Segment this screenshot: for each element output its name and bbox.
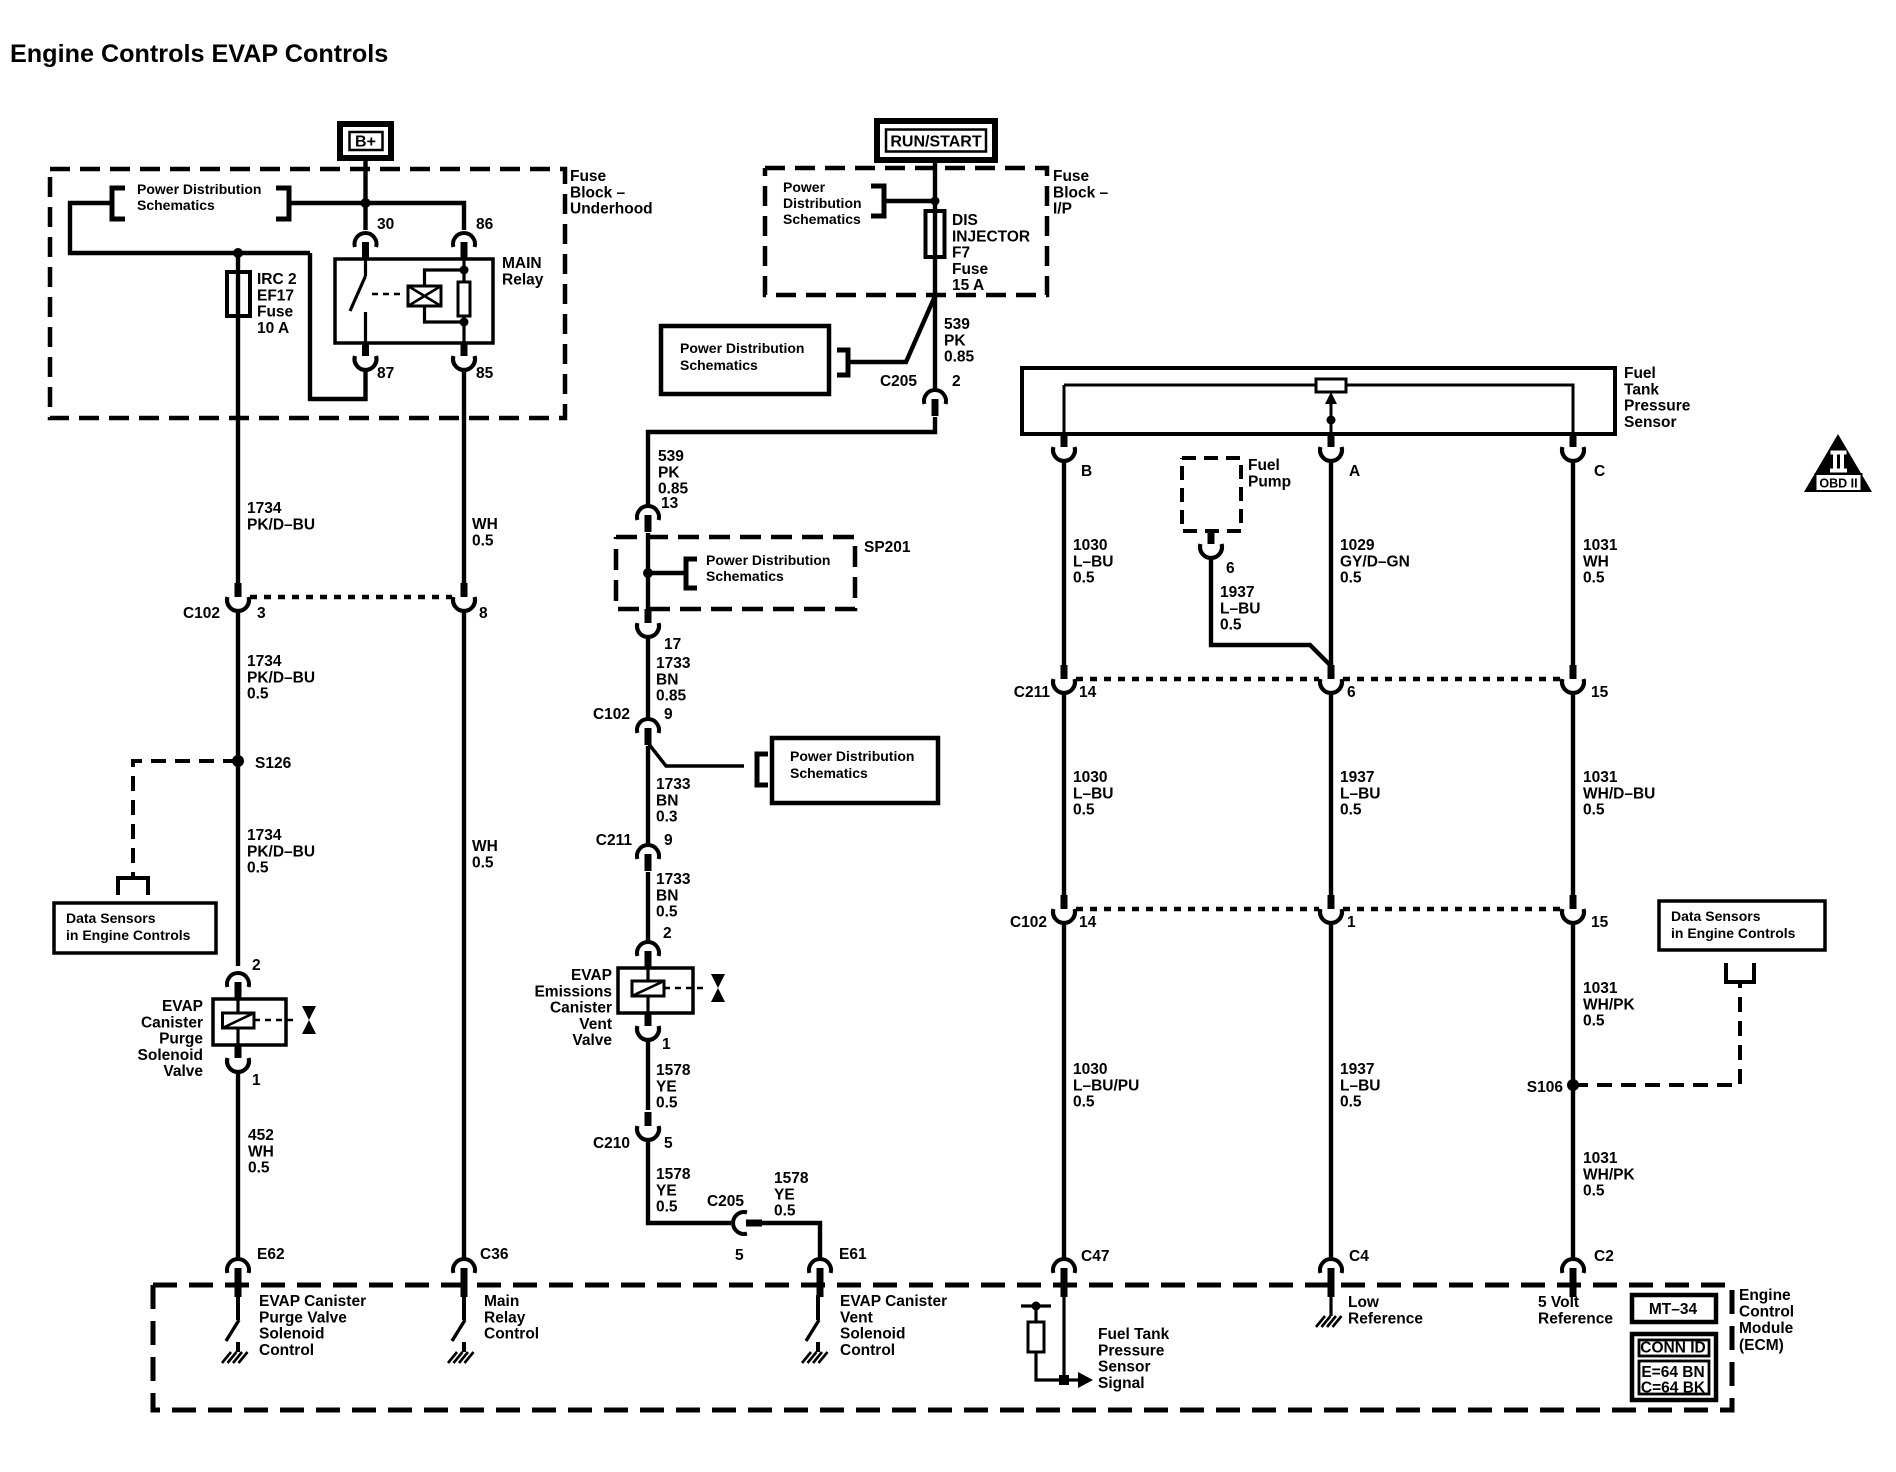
valve EVAP Canister Purge Solenoid Valve box	[213, 999, 286, 1045]
relay coil bottom wire	[425, 306, 465, 322]
svg-text:87: 87	[377, 365, 394, 382]
relay coil top wire to pin 86	[425, 270, 465, 286]
svg-text:Block –: Block –	[570, 184, 626, 201]
svg-text:DIS: DIS	[952, 212, 978, 229]
svg-text:15 A: 15 A	[952, 277, 984, 294]
relay pin 87 connector	[362, 343, 369, 356]
dashed connector row C102 right	[1076, 907, 1319, 912]
svg-text:30: 30	[377, 216, 394, 233]
svg-text:(ECM): (ECM)	[1739, 1337, 1784, 1354]
svg-text:0.85: 0.85	[944, 349, 975, 366]
sensor element	[1316, 379, 1346, 392]
wire 1029 GY/D-GN (col A)	[1329, 462, 1333, 666]
svg-text:Fuse: Fuse	[257, 304, 294, 321]
relay pin 30 connector	[354, 233, 376, 247]
wire from pin 85 down (WH)	[462, 371, 466, 583]
svg-text:Fuel Tank: Fuel Tank	[1098, 1326, 1170, 1343]
connector into SP201 (pin 13)	[637, 506, 659, 520]
wire 1733 BN to vent valve	[646, 872, 650, 944]
svg-text:14: 14	[1079, 684, 1097, 701]
svg-text:9: 9	[664, 706, 673, 723]
svg-text:1937: 1937	[1340, 1061, 1374, 1078]
callout MT-34	[1632, 1295, 1716, 1322]
svg-text:Underhood: Underhood	[570, 201, 653, 218]
wire 1031 WH (col C)	[1571, 462, 1575, 666]
wire from reference to B+ node and relay pin 86	[289, 203, 464, 230]
svg-text:Power Distribution: Power Distribution	[790, 748, 914, 764]
wire 1030 L-BU/PU (col B bottom)	[1062, 923, 1066, 1259]
wire 1937 L-BU (col A bottom)	[1329, 923, 1333, 1259]
svg-text:WH: WH	[1583, 553, 1609, 570]
relay pin 85 connector	[461, 343, 468, 356]
svg-text:C2: C2	[1594, 1248, 1614, 1265]
svg-text:Schematics: Schematics	[680, 357, 758, 373]
svg-text:Relay: Relay	[502, 271, 544, 288]
svg-text:1: 1	[252, 1072, 261, 1089]
ECM pin E61 connector	[809, 1259, 831, 1273]
wire from reference to fuse/relay feed	[70, 203, 310, 253]
svg-text:C210: C210	[593, 1135, 630, 1152]
svg-text:PK: PK	[658, 464, 680, 481]
sensor Fuel Tank Pressure Sensor box	[1022, 368, 1615, 434]
svg-text:L–BU: L–BU	[1220, 600, 1260, 617]
svg-text:0.5: 0.5	[472, 854, 494, 871]
svg-text:MT–34: MT–34	[1649, 1301, 1698, 1318]
svg-text:1030: 1030	[1073, 769, 1107, 786]
wire from fuse down out of fuse block	[236, 316, 240, 583]
svg-text:C211: C211	[596, 832, 633, 849]
svg-text:1578: 1578	[656, 1166, 691, 1183]
svg-text:Valve: Valve	[163, 1063, 203, 1080]
svg-text:E=64 BN: E=64 BN	[1641, 1364, 1704, 1381]
svg-text:17: 17	[664, 636, 681, 653]
dashed branch S106 to data sensors reference	[1573, 984, 1740, 1085]
svg-text:Schematics: Schematics	[137, 197, 215, 213]
svg-text:C=64 BK: C=64 BK	[1641, 1380, 1706, 1397]
svg-text:C102: C102	[183, 605, 220, 622]
fuse block - underhood dashed box	[50, 169, 565, 418]
svg-text:Solenoid: Solenoid	[138, 1047, 203, 1064]
svg-text:1: 1	[662, 1036, 671, 1053]
svg-text:A: A	[1349, 463, 1360, 480]
vent valve coil symbol	[632, 981, 664, 996]
svg-text:1734: 1734	[247, 500, 282, 517]
svg-text:C4: C4	[1349, 1248, 1369, 1265]
valve EVAP Emissions Canister Vent Valve box	[618, 968, 693, 1013]
svg-text:10 A: 10 A	[257, 320, 289, 337]
svg-text:WH/PK: WH/PK	[1583, 1166, 1635, 1183]
svg-text:Data Sensors: Data Sensors	[1671, 908, 1761, 924]
svg-text:452: 452	[248, 1127, 274, 1144]
svg-text:L–BU: L–BU	[1073, 553, 1113, 570]
svg-text:0.85: 0.85	[656, 688, 687, 705]
svg-text:0.5: 0.5	[1073, 1094, 1095, 1111]
junction dot at B+ wire	[361, 198, 371, 208]
wire from pin 87 loop to fuse feed	[310, 253, 366, 399]
sensor pin A connector	[1328, 434, 1335, 447]
sensor wiper arrow (pin A)	[1330, 402, 1333, 434]
reference: Power Distribution Schematics (underhood)	[112, 188, 125, 219]
svg-text:1734: 1734	[247, 827, 282, 844]
connector C210 pin 5	[645, 1112, 652, 1126]
svg-text:L–BU: L–BU	[1340, 1077, 1380, 1094]
svg-text:Fuse: Fuse	[570, 168, 607, 185]
fuel pump pin 6 connector	[1208, 531, 1215, 544]
svg-text:YE: YE	[656, 1182, 677, 1199]
svg-text:0.5: 0.5	[774, 1203, 796, 1220]
fuse block - I/P dashed box	[765, 168, 1047, 295]
svg-text:Fuse: Fuse	[1053, 168, 1090, 185]
svg-text:0.5: 0.5	[248, 1160, 270, 1177]
svg-text:0.5: 0.5	[1340, 802, 1362, 819]
svg-text:0.5: 0.5	[247, 860, 269, 877]
svg-text:EVAP: EVAP	[162, 998, 203, 1015]
svg-text:Purge: Purge	[159, 1031, 203, 1048]
connector C102 pin 1	[1328, 895, 1335, 909]
dashed branch from S126 to data sensors reference	[133, 761, 238, 877]
svg-text:WH: WH	[248, 1143, 274, 1160]
svg-text:C36: C36	[480, 1246, 509, 1263]
svg-text:WH/D–BU: WH/D–BU	[1583, 785, 1655, 802]
splice pack SP201 dashed box	[616, 537, 855, 609]
connector C205 pin 2	[924, 390, 946, 404]
wire from C210 to C205	[648, 1138, 731, 1223]
pointer staple to data sensors box	[118, 878, 148, 895]
svg-text:EVAP Canister: EVAP Canister	[259, 1293, 366, 1310]
svg-text:Reference: Reference	[1348, 1310, 1423, 1327]
svg-text:Emissions: Emissions	[534, 983, 612, 1000]
svg-text:Fuse: Fuse	[952, 261, 989, 278]
wire 1937 from fuel pump to C211-6	[1211, 559, 1331, 666]
reference box: Data Sensors in Engine Controls (left)	[54, 903, 216, 953]
svg-text:Purge Valve: Purge Valve	[259, 1309, 347, 1326]
svg-text:Canister: Canister	[141, 1014, 203, 1031]
svg-text:Schematics: Schematics	[706, 568, 784, 584]
wire from reference to DIS injector feed	[884, 199, 935, 203]
purge valve coil symbol	[223, 1013, 255, 1028]
svg-text:BN: BN	[656, 792, 678, 809]
svg-text:Relay: Relay	[484, 1309, 526, 1326]
purge valve pin 2 connector	[227, 973, 249, 987]
wire RUN/START down through fuse	[933, 160, 937, 213]
svg-text:1937: 1937	[1220, 584, 1254, 601]
svg-text:15: 15	[1591, 684, 1609, 701]
svg-text:Vent: Vent	[840, 1309, 873, 1326]
svg-text:B+: B+	[355, 134, 376, 151]
wire from fuse to C205	[933, 257, 937, 390]
svg-text:0.3: 0.3	[656, 809, 678, 826]
svg-text:EVAP: EVAP	[571, 967, 612, 984]
svg-text:1734: 1734	[247, 653, 282, 670]
fuse DIS INJECTOR F7 15 A	[926, 211, 945, 257]
connector C211 pin 6	[1328, 665, 1335, 679]
svg-text:1031: 1031	[1583, 537, 1618, 554]
svg-text:85: 85	[476, 365, 494, 382]
connector C205 pin 5 (horizontal)	[733, 1212, 747, 1234]
wire from C205-2 down and left to col3	[648, 417, 935, 506]
svg-text:RUN/START: RUN/START	[890, 134, 981, 151]
svg-text:INJECTOR: INJECTOR	[952, 228, 1030, 245]
svg-text:0.5: 0.5	[656, 904, 678, 921]
svg-text:WH: WH	[472, 838, 498, 855]
svg-text:Fuel: Fuel	[1248, 457, 1280, 474]
connector C211 pin 15	[1570, 665, 1577, 679]
svg-text:1030: 1030	[1073, 1061, 1107, 1078]
OBD II symbol	[1804, 434, 1872, 492]
svg-text:539: 539	[944, 316, 970, 333]
connector C211 pin 14	[1061, 665, 1068, 679]
reference box: Data Sensors in Engine Controls (right)	[1659, 901, 1825, 950]
svg-text:Block –: Block –	[1053, 184, 1109, 201]
svg-text:0.5: 0.5	[1073, 802, 1095, 819]
svg-text:1029: 1029	[1340, 537, 1375, 554]
connector C102 pin 15	[1570, 895, 1577, 909]
svg-text:Sensor: Sensor	[1098, 1359, 1151, 1376]
relay pin 86 connector	[453, 233, 475, 247]
wire 1031 WH/D-BU row2 (col C)	[1571, 693, 1575, 896]
reference: Power Distribution Schematics (SP201)	[648, 571, 686, 575]
svg-text:13: 13	[661, 495, 679, 512]
wire 1031 WH/PK (col C to S106)	[1571, 923, 1575, 1259]
relay switch blade	[364, 259, 367, 276]
svg-text:PK: PK	[944, 332, 966, 349]
relay MAIN Relay box	[335, 259, 493, 343]
svg-text:Sensor: Sensor	[1624, 414, 1677, 431]
svg-text:IRC 2: IRC 2	[257, 271, 297, 288]
connector C102 pin 9	[637, 719, 659, 733]
fuse IRC 2 EF17 10 A	[227, 272, 250, 316]
svg-text:6: 6	[1347, 684, 1356, 701]
svg-text:Control: Control	[1739, 1304, 1794, 1321]
svg-text:Distribution: Distribution	[783, 195, 862, 211]
splice S106	[1567, 1079, 1579, 1091]
connector C102 pin 8	[461, 583, 468, 597]
svg-text:1031: 1031	[1583, 980, 1618, 997]
svg-text:1733: 1733	[656, 655, 691, 672]
svg-text:1937: 1937	[1340, 769, 1374, 786]
svg-text:0.5: 0.5	[1220, 617, 1242, 634]
pointer staple to data sensors box (right)	[1726, 963, 1754, 982]
svg-text:0.5: 0.5	[247, 686, 269, 703]
svg-text:5 Volt: 5 Volt	[1538, 1294, 1579, 1311]
callout CONN ID	[1632, 1334, 1716, 1400]
svg-text:5: 5	[735, 1247, 744, 1264]
svg-text:YE: YE	[774, 1186, 795, 1203]
svg-text:0.5: 0.5	[1583, 1183, 1605, 1200]
svg-text:E61: E61	[839, 1246, 867, 1263]
dashed connector row C211	[1076, 677, 1319, 682]
svg-text:GY/D–GN: GY/D–GN	[1340, 553, 1410, 570]
ECM signal junction and arrow	[1059, 1375, 1069, 1385]
ECM pin E62 connector	[227, 1259, 249, 1273]
svg-text:Data Sensors: Data Sensors	[66, 910, 156, 926]
svg-text:YE: YE	[656, 1078, 677, 1095]
relay coil (box with X)	[408, 286, 441, 306]
wire from reference diagonal to fuse output	[848, 296, 935, 362]
svg-text:SP201: SP201	[864, 539, 911, 556]
svg-text:1031: 1031	[1583, 769, 1618, 786]
svg-text:2: 2	[663, 925, 672, 942]
svg-text:L–BU: L–BU	[1340, 785, 1380, 802]
svg-text:Tank: Tank	[1624, 381, 1659, 398]
svg-text:1031: 1031	[1583, 1150, 1618, 1167]
ECM driver EVAP canister vent solenoid control	[816, 1295, 820, 1320]
purge valve dashed link	[254, 1019, 296, 1022]
ECM pin C4 connector	[1320, 1259, 1342, 1273]
ECM pin C2 connector	[1562, 1259, 1584, 1273]
svg-text:1578: 1578	[774, 1170, 809, 1187]
vent valve dashed link	[664, 987, 705, 990]
svg-text:C102: C102	[593, 706, 630, 723]
svg-text:0.5: 0.5	[472, 532, 494, 549]
svg-text:F7: F7	[952, 245, 970, 262]
svg-text:Solenoid: Solenoid	[840, 1326, 905, 1343]
svg-text:I/P: I/P	[1053, 201, 1072, 218]
svg-text:Pump: Pump	[1248, 473, 1291, 490]
svg-text:C47: C47	[1081, 1248, 1109, 1265]
svg-text:C205: C205	[707, 1193, 744, 1210]
svg-text:Pressure: Pressure	[1624, 398, 1691, 415]
svg-text:B: B	[1081, 463, 1092, 480]
svg-text:in Engine Controls: in Engine Controls	[1671, 925, 1796, 941]
svg-text:Control: Control	[484, 1326, 539, 1343]
vent valve pin 2 connector	[637, 942, 659, 956]
purge valve pintle (bowtie)	[302, 1006, 316, 1034]
svg-text:E62: E62	[257, 1246, 285, 1263]
connector out of SP201 (pin 17)	[645, 609, 652, 623]
wire from B+ down to relay pin 30	[363, 158, 367, 230]
dotted connector row C102	[250, 595, 452, 600]
svg-text:L–BU/PU: L–BU/PU	[1073, 1077, 1139, 1094]
ECM pin C36 connector	[453, 1259, 475, 1273]
junction dot S (fuse feed)	[233, 248, 243, 258]
power symbol B+	[340, 124, 391, 158]
svg-text:EVAP Canister: EVAP Canister	[840, 1293, 947, 1310]
svg-text:2: 2	[952, 373, 961, 390]
svg-text:WH/PK: WH/PK	[1583, 996, 1635, 1013]
svg-text:1578: 1578	[656, 1062, 691, 1079]
svg-text:Power Distribution: Power Distribution	[680, 340, 804, 356]
svg-text:Engine: Engine	[1739, 1287, 1791, 1304]
wire 1030 L-BU (col B)	[1062, 462, 1066, 666]
svg-text:Power Distribution: Power Distribution	[706, 552, 830, 568]
svg-text:Schematics: Schematics	[783, 211, 861, 227]
svg-text:Vent: Vent	[579, 1016, 612, 1033]
svg-text:EF17: EF17	[257, 287, 294, 304]
wire through SP201	[646, 533, 650, 609]
junction dot in SP201	[643, 568, 653, 578]
svg-text:Signal: Signal	[1098, 1375, 1145, 1392]
svg-text:9: 9	[664, 832, 673, 849]
svg-text:Main: Main	[484, 1293, 519, 1310]
svg-text:1733: 1733	[656, 776, 691, 793]
svg-text:BN: BN	[656, 887, 678, 904]
svg-text:3: 3	[257, 605, 266, 622]
svg-text:Schematics: Schematics	[790, 765, 868, 781]
power symbol RUN/START	[877, 121, 995, 160]
svg-text:C102: C102	[1010, 914, 1047, 931]
sensor internal wire B-C	[1064, 385, 1573, 434]
connector C102 pin 3	[235, 583, 242, 597]
svg-text:OBD II: OBD II	[1819, 477, 1857, 491]
svg-text:Control: Control	[259, 1342, 314, 1359]
connector C211 pin 9	[637, 845, 659, 859]
ECM low reference ground	[1329, 1297, 1332, 1316]
svg-text:0.5: 0.5	[656, 1199, 678, 1216]
svg-text:Power: Power	[783, 179, 826, 195]
svg-text:Canister: Canister	[550, 1000, 612, 1017]
svg-text:Reference: Reference	[1538, 1310, 1613, 1327]
svg-text:0.5: 0.5	[1583, 1013, 1605, 1030]
svg-text:Fuel: Fuel	[1624, 365, 1656, 382]
ECM pull-up resistor	[1028, 1322, 1044, 1352]
svg-text:5: 5	[664, 1135, 673, 1152]
sensor pin C connector	[1570, 434, 1577, 447]
svg-text:S126: S126	[255, 755, 292, 772]
svg-text:CONN ID: CONN ID	[1640, 1340, 1705, 1357]
svg-text:BN: BN	[656, 671, 678, 688]
svg-text:PK/D–BU: PK/D–BU	[247, 516, 315, 533]
sensor pin B connector	[1061, 434, 1068, 447]
splice S126	[232, 755, 244, 767]
svg-text:0.5: 0.5	[1340, 1094, 1362, 1111]
svg-text:1030: 1030	[1073, 537, 1107, 554]
wire col2 from C102-8 to C36	[462, 611, 466, 1259]
svg-text:Control: Control	[840, 1342, 895, 1359]
wire 452 WH from purge valve to E62	[236, 1073, 240, 1259]
wire 1030 L-BU row2 (col B)	[1062, 693, 1066, 896]
svg-text:0.5: 0.5	[1583, 802, 1605, 819]
svg-text:in Engine Controls: in Engine Controls	[66, 927, 191, 943]
svg-text:WH: WH	[472, 516, 498, 533]
svg-text:S106: S106	[1527, 1079, 1564, 1096]
svg-text:Valve: Valve	[572, 1032, 612, 1049]
svg-text:Module: Module	[1739, 1320, 1794, 1337]
wire 1937 L-BU row2 (col A)	[1329, 693, 1333, 896]
svg-text:Solenoid: Solenoid	[259, 1326, 324, 1343]
svg-text:1733: 1733	[656, 871, 691, 888]
ECM driver EVAP canister purge valve solenoid control	[236, 1295, 240, 1320]
svg-text:Low: Low	[1348, 1294, 1380, 1311]
vent valve pintle (bowtie)	[711, 974, 725, 1002]
wire from C102-9 with branch to reference	[646, 746, 650, 845]
wire 1733 BN from SP201 to C102-9	[646, 635, 650, 719]
svg-text:14: 14	[1079, 914, 1097, 931]
svg-text:0.5: 0.5	[656, 1095, 678, 1112]
wire feed to fuse IRC 2	[236, 253, 240, 272]
svg-text:PK/D–BU: PK/D–BU	[247, 843, 315, 860]
connector C102 pin 14	[1061, 895, 1068, 909]
svg-text:C205: C205	[880, 373, 917, 390]
relay blade-coil dashed link	[372, 293, 405, 296]
svg-text:L–BU: L–BU	[1073, 785, 1113, 802]
relay resistor	[462, 259, 465, 282]
wire 1578 YE from vent valve to C210	[646, 1041, 650, 1110]
ECM pin C47 connector	[1053, 1259, 1075, 1273]
ECM driver main relay control	[462, 1295, 466, 1320]
svg-text:539: 539	[658, 448, 684, 465]
svg-text:0.5: 0.5	[1073, 570, 1095, 587]
wire 1734 from C102-3 to S126	[236, 611, 240, 966]
reference box: Power Distribution Schematics (mid)	[648, 743, 744, 766]
svg-text:Power Distribution: Power Distribution	[137, 181, 261, 197]
svg-text:PK/D–BU: PK/D–BU	[247, 669, 315, 686]
svg-text:Pressure: Pressure	[1098, 1342, 1165, 1359]
svg-text:C: C	[1594, 463, 1605, 480]
svg-text:0.5: 0.5	[1340, 570, 1362, 587]
svg-text:0.5: 0.5	[1583, 570, 1605, 587]
reference box: Power Distribution Schematics (solid, I/P feed)	[661, 326, 829, 394]
